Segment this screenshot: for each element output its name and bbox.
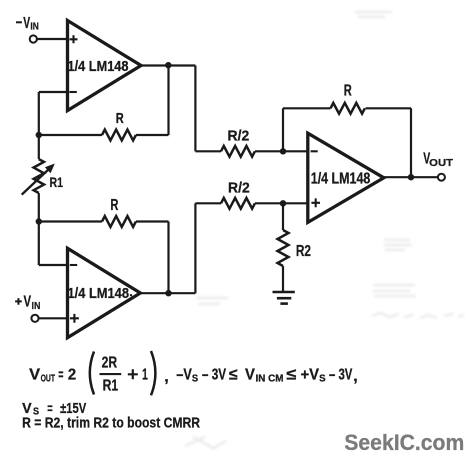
svg-text:– 3V: – 3V bbox=[202, 366, 226, 383]
svg-text:IN CM: IN CM bbox=[256, 373, 284, 385]
svg-text:,: , bbox=[164, 369, 168, 386]
svg-text:,: , bbox=[353, 368, 357, 385]
svg-text:V: V bbox=[22, 400, 32, 417]
svg-text:OUT: OUT bbox=[429, 157, 453, 169]
svg-text:R: R bbox=[116, 110, 124, 127]
svg-text:SeekIC.com: SeekIC.com bbox=[344, 430, 464, 455]
svg-text:S: S bbox=[319, 373, 326, 385]
svg-text:1/4 LM148: 1/4 LM148 bbox=[311, 170, 371, 187]
svg-text:IN: IN bbox=[32, 300, 41, 312]
svg-text:R: R bbox=[344, 83, 352, 100]
svg-text:OUT: OUT bbox=[41, 373, 56, 385]
svg-text:1/4 LM148: 1/4 LM148 bbox=[68, 285, 130, 302]
svg-text:+V: +V bbox=[301, 366, 320, 383]
svg-text:R: R bbox=[110, 197, 118, 214]
svg-text:=: = bbox=[58, 366, 63, 383]
svg-text:–V: –V bbox=[176, 366, 192, 383]
svg-text:IN: IN bbox=[30, 21, 38, 33]
svg-text:1: 1 bbox=[142, 366, 148, 383]
svg-text:±15V: ±15V bbox=[60, 400, 86, 417]
svg-text:R2: R2 bbox=[296, 243, 311, 260]
svg-text:R/2: R/2 bbox=[228, 128, 250, 145]
svg-text:R1: R1 bbox=[103, 377, 119, 394]
svg-text:R1: R1 bbox=[50, 175, 64, 190]
svg-text:≤: ≤ bbox=[229, 366, 238, 383]
svg-text:V: V bbox=[29, 366, 40, 383]
svg-text:S: S bbox=[192, 372, 198, 384]
svg-text:V: V bbox=[23, 15, 30, 32]
svg-text:V: V bbox=[245, 366, 255, 383]
svg-text:– 3V: – 3V bbox=[329, 366, 353, 383]
svg-text:=: = bbox=[47, 400, 53, 416]
svg-text:2: 2 bbox=[68, 366, 76, 383]
svg-text:R = R2, trim R2 to boost CMRR: R = R2, trim R2 to boost CMRR bbox=[22, 416, 200, 432]
svg-text:≤: ≤ bbox=[286, 366, 296, 383]
svg-text:1/4 LM148: 1/4 LM148 bbox=[68, 58, 129, 75]
svg-text:V: V bbox=[24, 294, 32, 311]
svg-text:R/2: R/2 bbox=[228, 179, 250, 196]
svg-text:2R: 2R bbox=[102, 355, 118, 372]
